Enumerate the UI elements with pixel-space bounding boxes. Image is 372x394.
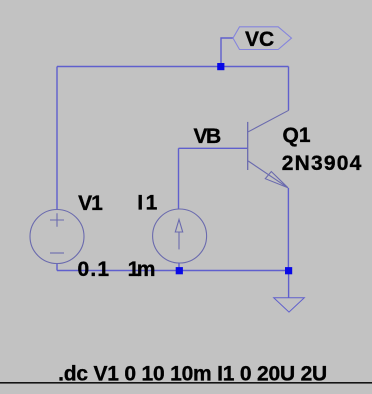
wire top horizontal (VC rail) [57, 66, 289, 68]
current source I1 circle [153, 209, 207, 263]
wire VB vertical to I1 [178, 148, 180, 209]
svg-text:VB: VB [194, 125, 222, 148]
svg-text:VC: VC [245, 28, 274, 51]
I1 arrow head [175, 220, 182, 233]
node junction at VC rail [217, 63, 224, 70]
net flag VC hexagon [233, 27, 292, 50]
transistor Q1 base bar [247, 122, 249, 170]
svg-text:2N3904: 2N3904 [282, 152, 363, 175]
wire ground stub [288, 271, 290, 298]
ground symbol [274, 298, 305, 312]
wire V1 bottom stub [56, 264, 58, 271]
V1 minus sign [50, 252, 64, 254]
svg-text:0.1: 0.1 [78, 258, 111, 281]
wire emitter vertical [287, 188, 289, 271]
wire VC flag stub [221, 38, 233, 67]
svg-text:.dc V1 0 10 10m I1 0 20U 2U: .dc V1 0 10 10m I1 0 20U 2U [58, 362, 327, 385]
V1 plus sign [50, 213, 64, 227]
transistor Q1 emitter diagonal [248, 161, 288, 188]
svg-text:I1: I1 [137, 192, 160, 215]
node junction at ground [285, 267, 292, 274]
wire I1 bottom stub [178, 263, 180, 271]
wire base horizontal (VB) [179, 147, 248, 149]
wire bottom horizontal (ground rail) [57, 270, 289, 272]
node junction at I1 bottom [176, 267, 183, 274]
voltage source V1 circle [30, 210, 84, 264]
svg-text:V1: V1 [78, 192, 103, 215]
transistor Q1 collector diagonal [248, 110, 289, 132]
wire collector vertical [288, 67, 290, 111]
svg-text:1m: 1m [128, 258, 155, 281]
bottom rule [0, 382, 372, 384]
wire left vertical (to V1 plus) [56, 67, 58, 210]
transistor Q1 emitter arrow head [265, 172, 288, 188]
svg-text:Q1: Q1 [283, 124, 311, 147]
I1 arrow shaft [178, 232, 180, 250]
